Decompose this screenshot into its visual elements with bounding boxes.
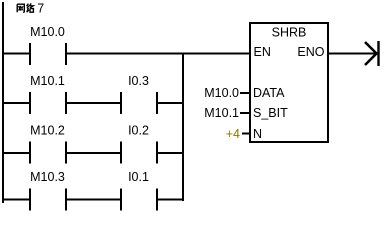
branch junction vertical wire — [182, 53, 184, 202]
svg-text:M10.3: M10.3 — [30, 170, 65, 184]
left power rail — [2, 2, 4, 203]
function block SHRB box — [250, 23, 328, 142]
wire N pin stub — [242, 133, 250, 135]
wire rung2: rail to contact M10.1 — [2, 102, 29, 104]
wire rung4: contact M10.3 to contact I0.1 — [67, 199, 120, 201]
wire rung4: contact I0.1 to junction — [158, 199, 184, 201]
wire rung2: contact I0.3 to junction — [158, 102, 184, 104]
contact M10.0 — [29, 43, 31, 65]
svg-text:I0.2: I0.2 — [128, 124, 149, 138]
svg-text:I0.1: I0.1 — [128, 170, 149, 184]
contact M10.2 — [29, 142, 31, 164]
svg-text:+4: +4 — [226, 127, 240, 141]
svg-text:M10.0: M10.0 — [204, 86, 239, 100]
wire rung1: rail to contact M10.0 — [2, 53, 29, 55]
svg-text:SHRB: SHRB — [272, 26, 307, 40]
svg-text:M10.1: M10.1 — [30, 74, 65, 88]
wire ENO output — [329, 53, 377, 55]
wire rung4: rail to contact M10.3 — [2, 199, 29, 201]
svg-text:M10.1: M10.1 — [204, 106, 239, 120]
contact I0.3 — [120, 92, 122, 114]
wire rung3: contact I0.2 to junction — [158, 152, 184, 154]
svg-text:M10.2: M10.2 — [30, 124, 65, 138]
svg-text:I0.3: I0.3 — [128, 74, 149, 88]
svg-text:M10.0: M10.0 — [30, 25, 65, 39]
svg-text:EN: EN — [254, 45, 271, 59]
svg-text:7: 7 — [37, 2, 44, 16]
wire rung3: contact M10.2 to contact I0.2 — [67, 152, 120, 154]
contact I0.2 — [120, 142, 122, 164]
svg-text:ENO: ENO — [297, 45, 324, 59]
wire rung3: rail to contact M10.2 — [2, 152, 29, 154]
wire DATA pin stub — [240, 92, 250, 94]
network label 网络 7 — [17, 3, 33, 12]
output arrow — [365, 42, 377, 65]
wire S_BIT pin stub — [240, 112, 250, 114]
svg-text:N: N — [253, 127, 262, 141]
contact M10.3 — [29, 189, 31, 211]
wire rung1: contact M10.0 to SHRB EN — [67, 53, 250, 55]
contact M10.1 — [29, 92, 31, 114]
contact I0.1 — [120, 189, 122, 211]
svg-text:S_BIT: S_BIT — [253, 106, 288, 120]
wire rung2: contact M10.1 to contact I0.3 — [67, 102, 120, 104]
svg-text:DATA: DATA — [253, 86, 285, 100]
